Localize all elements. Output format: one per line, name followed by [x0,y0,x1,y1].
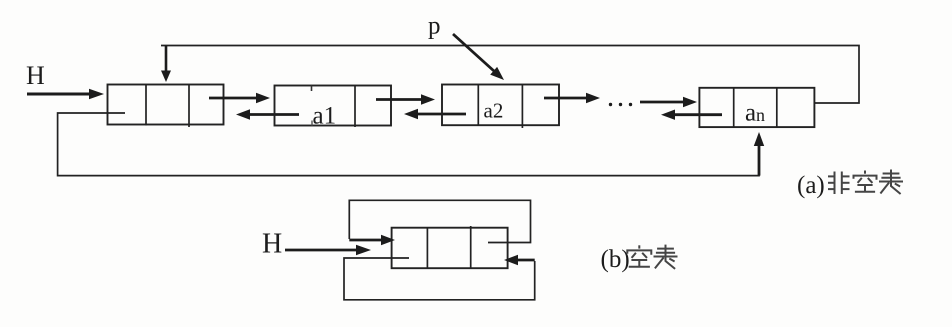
empty node divider 1 [426,228,428,269]
svg-text:H: H [262,229,282,260]
arrow an to dots (prev) [661,110,722,120]
caption (a) glyph KONG [854,171,877,192]
svg-text:a1: a1 [313,103,337,130]
a2 divider 2 [521,85,523,129]
svg-text:a2: a2 [484,99,504,123]
head node divider 1 [145,85,147,126]
bottom self loop (prev points to itself) [344,258,535,300]
a1 divider 1 (faded ticks) [311,86,313,92]
an divider 1 [733,88,735,127]
caption (b) glyph BIAO [654,245,678,269]
ellipsis dots [609,103,632,106]
caption (a) glyph FEI [828,172,850,195]
node a1 box [275,86,392,126]
arrow head to a1 (next) [209,93,270,103]
down arrow into head middle cell [161,46,171,83]
caption (b) glyph KONG [627,245,651,266]
node an box [699,88,814,127]
arrow a2 to dots (next) [544,93,600,103]
head node divider 2 [188,85,190,127]
arrow a2 to a1 (prev) [404,109,466,119]
head node box [108,85,224,125]
arrow p to node a2 [453,34,504,80]
arrow H to empty node [285,245,371,255]
node a2 box [442,85,559,126]
svg-text:p: p [428,13,441,40]
svg-text:(b): (b) [601,246,630,273]
svg-text:n: n [756,105,765,125]
arrow H to head node [27,89,104,99]
svg-text:(a): (a) [797,172,825,199]
top loop arrow into left cell [349,235,395,245]
caption (a) glyph BIAO [879,170,903,195]
an divider 2 [776,88,778,127]
top self loop (next points to itself) [349,200,530,242]
arrow a1 to head (prev) [236,109,299,119]
arrow a1 to a2 (next) [376,94,435,104]
svg-text:a: a [745,100,756,127]
top circular link: an next to head [161,46,859,104]
empty node box [392,228,508,269]
empty node divider 2 [470,226,472,268]
arrow dots to an (next) [640,97,697,107]
a2 divider 1 [477,85,479,126]
svg-text:H: H [26,61,45,90]
a1 divider 2 [354,86,356,128]
up arrow into an bottom [754,132,764,176]
bottom loop arrow into right cell [504,255,535,265]
head prev pointer: out of left cell, down, along bottom to node an [58,113,759,176]
